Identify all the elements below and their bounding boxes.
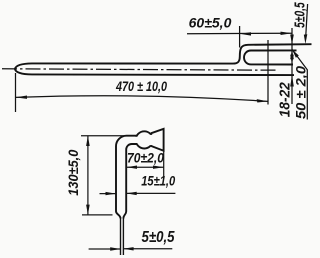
svg-text:15±1,0: 15±1,0: [141, 174, 175, 189]
svg-text:470 ± 10,0: 470 ± 10,0: [115, 79, 167, 94]
svg-text:5±0,5: 5±0,5: [292, 2, 308, 28]
svg-text:18-22: 18-22: [278, 82, 294, 117]
svg-text:60±5,0: 60±5,0: [189, 15, 232, 31]
svg-text:70±2,0: 70±2,0: [127, 151, 164, 166]
svg-text:130±5,0: 130±5,0: [65, 150, 81, 196]
svg-text:5±0,5: 5±0,5: [142, 229, 176, 246]
svg-text:50 ± 2,0: 50 ± 2,0: [293, 66, 309, 119]
